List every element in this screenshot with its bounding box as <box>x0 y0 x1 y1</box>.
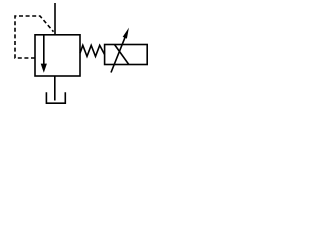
wire: inlet line P (top) <box>54 3 56 35</box>
wire: outlet line to tank (bottom) <box>54 76 56 101</box>
tank symbol T <box>46 92 65 103</box>
valve body V1 (pressure relief valve square) <box>35 35 80 76</box>
pilot line (dashed) from valve left side looping to inlet <box>15 16 54 58</box>
spring (zigzag) on valve right side <box>80 45 105 56</box>
adjustable restrictor body (rectangle) <box>105 45 148 65</box>
restriction diagonal line inside restrictor <box>115 45 129 65</box>
flow path arrow inside valve body <box>41 35 47 73</box>
adjustability arrow through restrictor <box>111 28 129 73</box>
